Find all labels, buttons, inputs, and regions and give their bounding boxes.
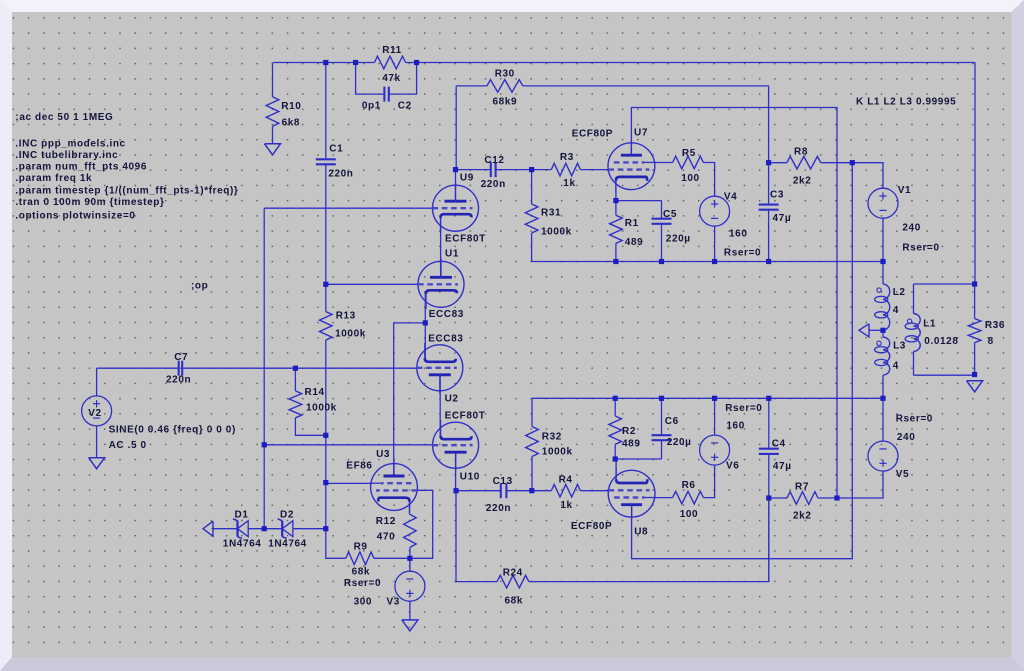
svg-text:4: 4 [893,305,899,316]
svg-text:U7: U7 [634,128,648,139]
svg-text:1k: 1k [560,500,572,511]
svg-text:L3: L3 [893,341,906,352]
svg-text:U3: U3 [376,449,390,460]
svg-text:300: 300 [354,596,373,607]
svg-text:ECF80P: ECF80P [572,129,613,140]
svg-text:4: 4 [893,360,899,371]
svg-text:.INC tubelibrary.inc: .INC tubelibrary.inc [15,150,118,161]
svg-text:ECC83: ECC83 [428,334,463,345]
svg-text:R6: R6 [682,480,696,491]
svg-text:100: 100 [680,509,699,520]
svg-text:L1: L1 [923,319,936,330]
svg-text:240: 240 [902,223,921,234]
svg-text:V6: V6 [726,460,739,471]
svg-text:220µ: 220µ [667,437,692,448]
svg-text:.param timestep {1/((num_fft_p: .param timestep {1/((num_fft_pts-1)*freq… [15,186,238,197]
svg-text:ECC83: ECC83 [429,309,464,320]
svg-text:68k: 68k [352,566,371,577]
svg-text:C7: C7 [174,352,188,363]
svg-text:C2: C2 [398,101,412,112]
svg-text:489: 489 [625,237,644,248]
svg-text:V2: V2 [88,408,101,419]
svg-text:ECF80T: ECF80T [445,234,486,245]
svg-text:SINE(0 0.46 {freq} 0 0 0): SINE(0 0.46 {freq} 0 0 0) [109,424,236,435]
svg-text:R24: R24 [503,568,523,579]
svg-text:2k2: 2k2 [793,175,812,186]
svg-text:U9: U9 [460,173,474,184]
svg-text:C5: C5 [663,209,677,220]
svg-text:Rser=0: Rser=0 [724,247,761,258]
svg-text:1N4764: 1N4764 [223,539,262,550]
svg-text:R5: R5 [682,148,696,159]
svg-text:U10: U10 [460,471,480,482]
svg-text:C13: C13 [493,476,513,487]
svg-text:R12: R12 [376,516,396,527]
svg-text:R11: R11 [382,45,402,56]
svg-text:Rser=0: Rser=0 [896,414,933,425]
svg-text:0p1: 0p1 [362,101,381,112]
svg-text:Rser=0: Rser=0 [344,578,381,589]
svg-text:AC .5 0: AC .5 0 [109,440,147,451]
svg-text:220µ: 220µ [666,234,691,245]
svg-text:47µ: 47µ [773,461,792,472]
svg-text:100: 100 [681,173,700,184]
svg-text:R9: R9 [354,542,368,553]
svg-text:D2: D2 [280,510,294,521]
svg-text:R4: R4 [559,475,573,486]
svg-text:R14: R14 [305,387,325,398]
svg-text:1000k: 1000k [542,447,573,458]
svg-text:R13: R13 [336,311,356,322]
svg-text:C6: C6 [665,416,679,427]
svg-text:68k: 68k [505,596,524,607]
svg-text:C12: C12 [484,155,504,166]
svg-text:489: 489 [622,438,641,449]
svg-text:47k: 47k [382,73,401,84]
svg-text:160: 160 [729,228,748,239]
svg-text:EF86: EF86 [346,461,372,472]
svg-text:240: 240 [897,432,916,443]
svg-text:220n: 220n [166,375,191,386]
svg-text:220n: 220n [328,168,353,179]
svg-text:R8: R8 [794,147,808,158]
svg-text:U2: U2 [445,394,459,405]
svg-text:1N4764: 1N4764 [268,539,307,550]
svg-text:68k9: 68k9 [493,96,518,107]
svg-text:R10: R10 [281,101,301,112]
svg-text:6k8: 6k8 [282,118,301,129]
svg-text:V1: V1 [898,185,911,196]
svg-text:ECF80P: ECF80P [571,521,612,532]
svg-text:1000k: 1000k [335,328,366,339]
svg-text:U1: U1 [445,249,459,260]
svg-text:Rser=0: Rser=0 [725,403,762,414]
svg-text:V5: V5 [896,469,909,480]
svg-text:470: 470 [377,532,396,543]
svg-text:R1: R1 [625,218,639,229]
svg-text:1000k: 1000k [541,227,572,238]
svg-text:R2: R2 [622,426,636,437]
svg-text:R31: R31 [541,208,561,219]
svg-text:L2: L2 [893,287,906,298]
svg-text:R30: R30 [495,68,515,79]
svg-text:V4: V4 [724,192,737,203]
svg-text:R3: R3 [560,152,574,163]
svg-text:8: 8 [988,336,994,347]
svg-text:.tran 0 100m 90m {timestep}: .tran 0 100m 90m {timestep} [15,197,164,208]
svg-text:D1: D1 [235,510,249,521]
svg-text:47µ: 47µ [773,213,792,224]
svg-text:C1: C1 [329,143,343,154]
svg-text:C4: C4 [772,439,786,450]
svg-text:1000k: 1000k [306,403,337,414]
svg-text:2k2: 2k2 [793,510,812,521]
svg-text:Rser=0: Rser=0 [902,242,939,253]
svg-text:;op: ;op [191,280,208,291]
svg-text:.INC ppp_models.inc: .INC ppp_models.inc [15,138,125,149]
svg-text:0.0128: 0.0128 [924,336,958,347]
svg-text:220n: 220n [486,503,511,514]
svg-text:R32: R32 [542,432,562,443]
svg-text:.param num_fft_pts 4096: .param num_fft_pts 4096 [15,161,147,172]
svg-text:220n: 220n [481,179,506,190]
svg-text:U8: U8 [634,527,648,538]
svg-text:160: 160 [726,421,745,432]
svg-text:C3: C3 [770,190,784,201]
svg-text:R7: R7 [795,481,809,492]
svg-text:V3: V3 [387,596,400,607]
svg-text:;ac dec 50 1 1MEG: ;ac dec 50 1 1MEG [15,112,113,123]
svg-text:R36: R36 [985,320,1005,331]
svg-text:K L1 L2 L3 0.99995: K L1 L2 L3 0.99995 [856,97,956,108]
svg-text:.options plotwinsize=0: .options plotwinsize=0 [15,211,135,222]
svg-text:.param freq 1k: .param freq 1k [15,173,92,184]
svg-text:1k: 1k [563,178,575,189]
svg-text:ECF80T: ECF80T [445,411,486,422]
